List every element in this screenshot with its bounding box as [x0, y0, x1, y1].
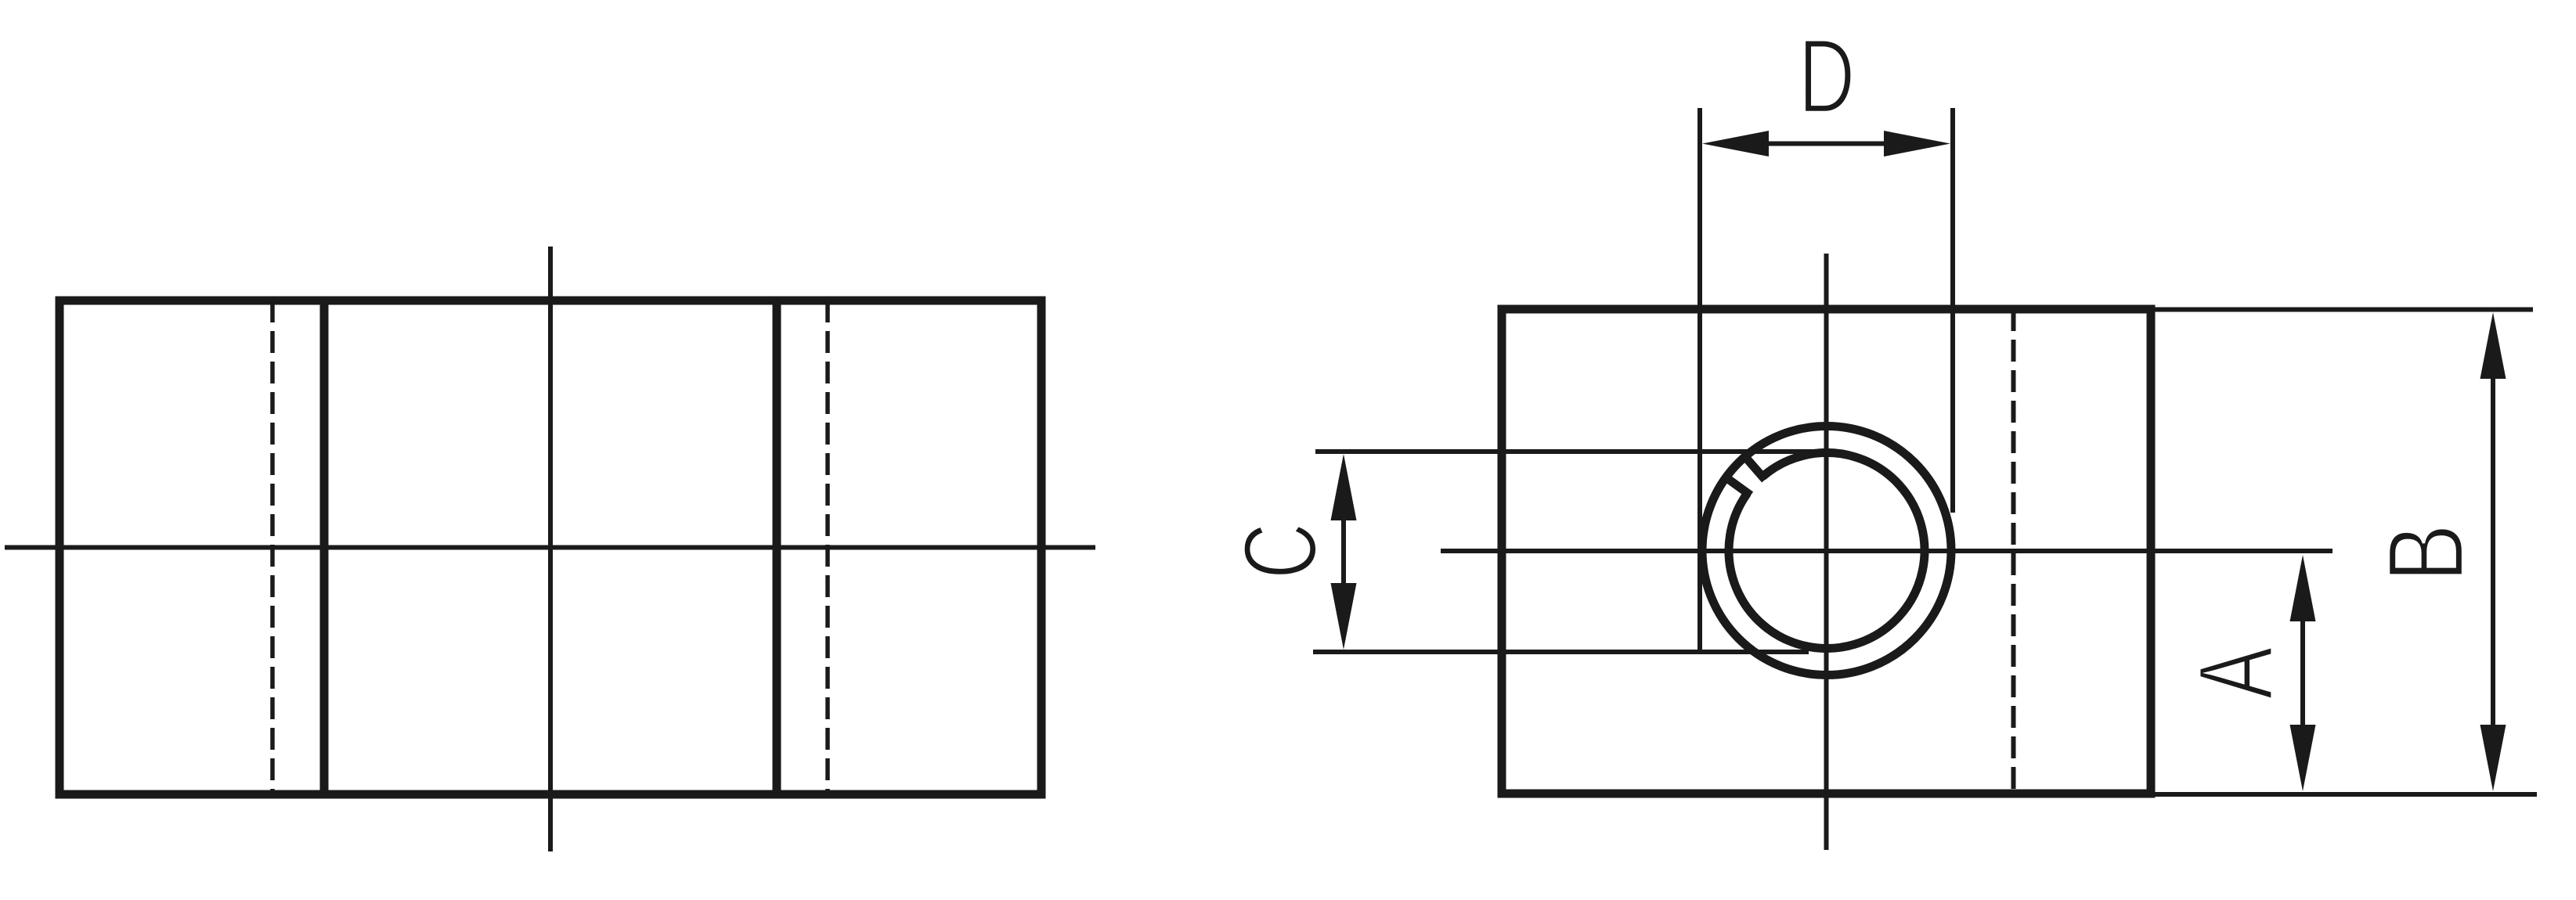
- svg-text:A: A: [2177, 646, 2295, 699]
- D arrowhead left: [1702, 131, 1769, 157]
- bore outer circle: [1702, 427, 1951, 675]
- hidden (dashed) line: [2011, 309, 2016, 794]
- D dimension line: [1766, 142, 1886, 146]
- body outline rectangle: [60, 301, 1041, 794]
- bore inner circle with slot gap (131deg to 144deg): [1729, 452, 1925, 648]
- C extension line bottom: [1313, 650, 1809, 654]
- C extension line top: [1315, 449, 1831, 454]
- edge line right: [773, 301, 781, 794]
- edge line left: [320, 301, 329, 794]
- svg-text:B: B: [2365, 524, 2487, 582]
- B arrowhead bottom: [2480, 725, 2506, 791]
- svg-text:D: D: [1799, 17, 1856, 135]
- vertical centerline: [1824, 254, 1829, 850]
- svg-text:C: C: [1222, 523, 1338, 579]
- horizontal centerline: [1441, 549, 2332, 553]
- D arrowhead right: [1884, 131, 1950, 157]
- C arrowhead bottom: [1331, 583, 1357, 650]
- A arrowhead bottom: [2290, 725, 2316, 791]
- C arrowhead top: [1331, 454, 1357, 520]
- A dimension line: [2300, 619, 2305, 727]
- body outline rectangle: [1502, 309, 2151, 794]
- hidden (dashed) line right: [825, 301, 830, 794]
- horizontal centerline: [5, 545, 1095, 550]
- D extension line right: [1950, 108, 1955, 513]
- slot flank at 144deg: [1725, 477, 1751, 495]
- A arrowhead top: [2290, 555, 2316, 621]
- B dimension line: [2491, 376, 2495, 727]
- slot flank at 131deg: [1744, 455, 1765, 480]
- B extension line top: [2155, 308, 2533, 312]
- vertical centerline: [548, 247, 553, 851]
- C dimension line: [1341, 518, 1346, 585]
- D extension line left: [1697, 108, 1702, 653]
- hidden (dashed) line left: [270, 301, 275, 794]
- B extension line bottom: [2155, 792, 2537, 797]
- B arrowhead top: [2480, 312, 2506, 379]
